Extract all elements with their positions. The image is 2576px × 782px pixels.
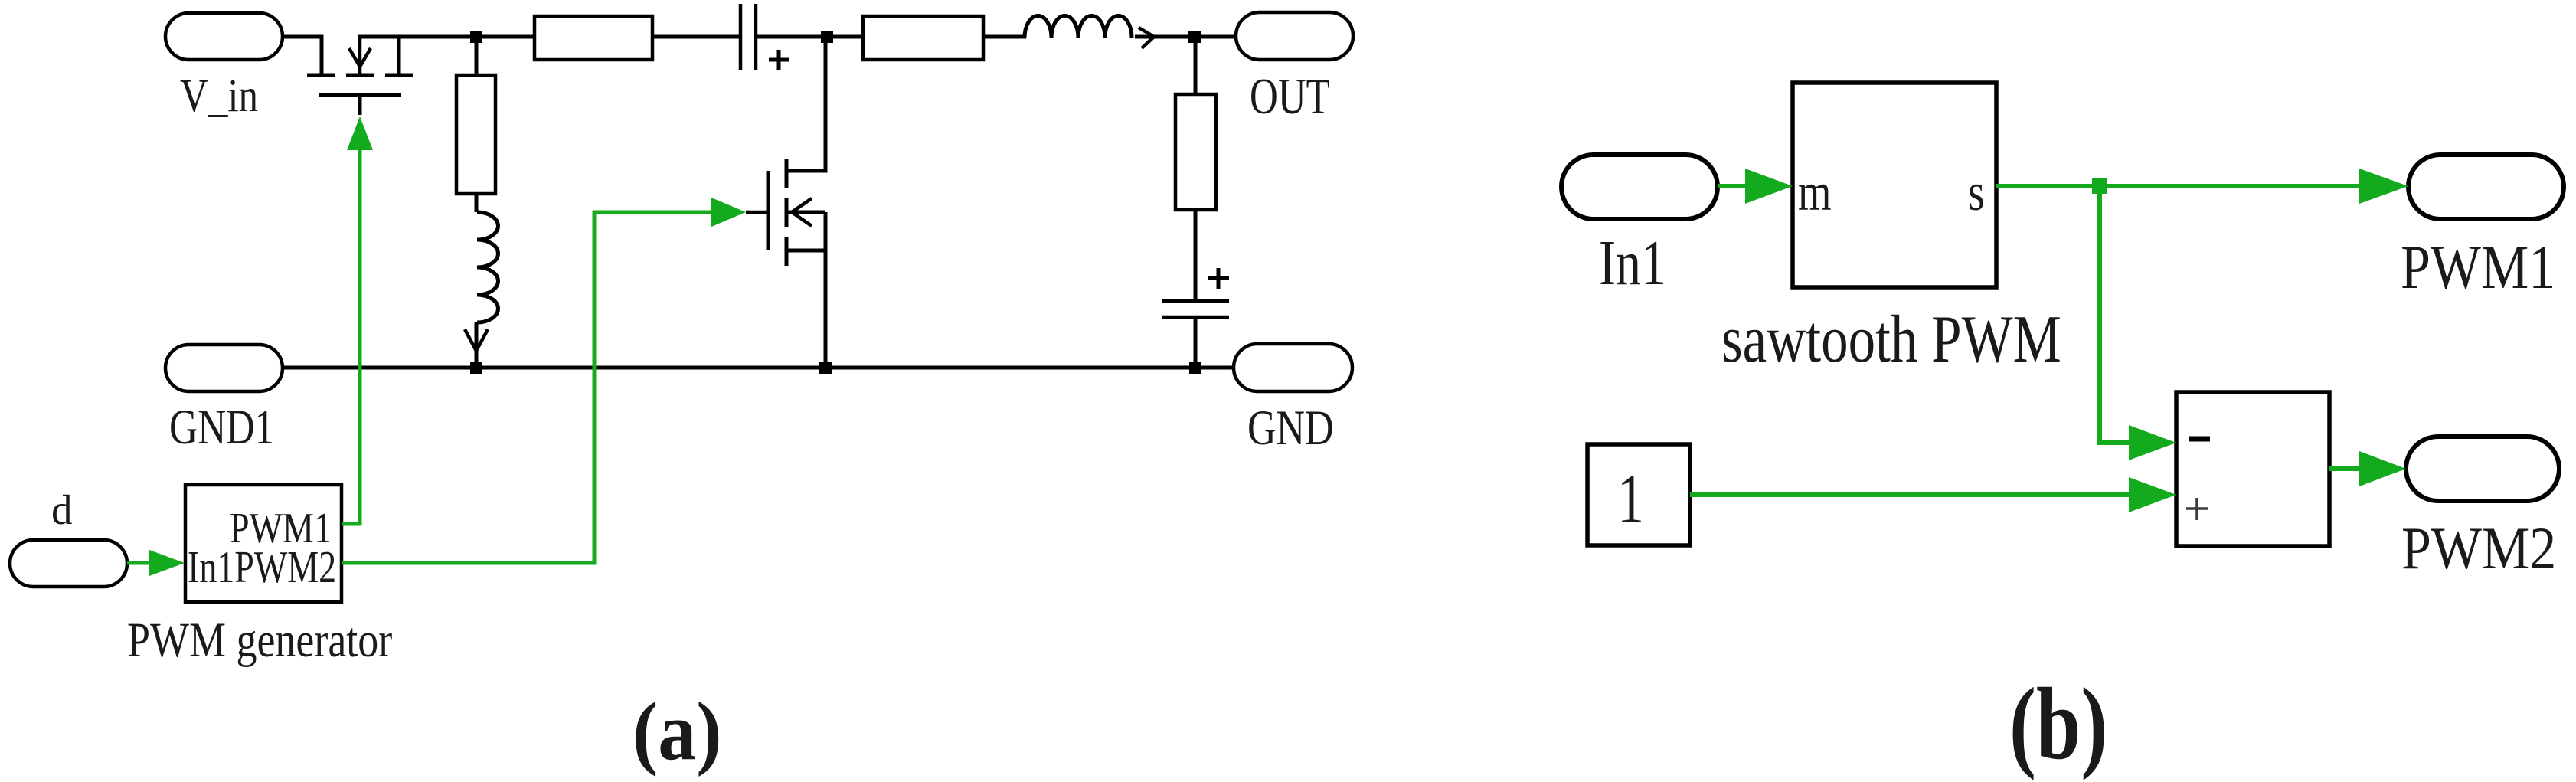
arrowhead at m input (green) xyxy=(1745,169,1793,204)
node E junction dot xyxy=(1189,362,1201,374)
constant block 1 xyxy=(1587,444,1690,545)
wire R2 to capacitor C1 xyxy=(652,35,739,39)
port V_in xyxy=(165,13,283,60)
port GND xyxy=(1234,344,1352,391)
wire top rail M1 to node A xyxy=(358,35,534,39)
wire In1 to sawtooth PWM m (green) xyxy=(1718,184,1746,188)
transistor M2 drain lead up to node C xyxy=(786,37,825,171)
svg-text:sawtooth PWM: sawtooth PWM xyxy=(1721,303,2061,377)
resistor R1 (vertical) xyxy=(456,75,495,194)
svg-text:d: d xyxy=(51,486,73,533)
transistor M1 source contact bar xyxy=(307,74,335,77)
port GND1 xyxy=(165,345,283,391)
arrowhead at sum plus input (green) xyxy=(2129,477,2176,512)
sum minus sign xyxy=(2189,437,2210,442)
capacitor C1 (series) plates xyxy=(739,4,743,70)
transistor M1 body terminal with down arrow xyxy=(349,35,371,74)
resistor R4 (vertical, load) xyxy=(1175,94,1216,210)
wire bottom rail GND1 to GND xyxy=(283,366,1234,370)
inductor L1 (vertical coil) xyxy=(477,212,499,322)
port PWM2 xyxy=(2406,437,2559,501)
wire C2 to bottom rail xyxy=(1194,319,1198,368)
node G green junction dot xyxy=(2092,178,2107,194)
transistor M2 gate lead xyxy=(746,211,767,214)
transistor M1 gate stub xyxy=(358,97,362,115)
svg-text:PWM generator: PWM generator xyxy=(127,612,392,667)
wire PWM1 output to M1 gate (green) xyxy=(342,150,360,524)
node B junction dot on bottom rail xyxy=(470,362,482,374)
node D junction dot xyxy=(1188,31,1201,43)
svg-text:GND: GND xyxy=(1247,401,1334,456)
arrowhead at PWM1 (green) xyxy=(2359,169,2408,204)
arrowhead at PWM generator In1 (green) xyxy=(149,550,185,576)
port d xyxy=(10,540,127,587)
wire constant 1 to sum plus input (green) xyxy=(1690,492,2130,497)
capacitor C1 plus label xyxy=(769,50,789,70)
port PWM1 xyxy=(2408,155,2564,219)
capacitor C2 (output) plates xyxy=(1162,299,1229,303)
svg-text:OUT: OUT xyxy=(1250,68,1330,125)
wire R3 to inductor L2 xyxy=(983,35,1026,39)
transistor M2 channel segments xyxy=(785,159,789,266)
svg-text:PWM1: PWM1 xyxy=(2401,233,2555,302)
wire sawtooth s output to PWM1 (green) xyxy=(1996,184,2360,188)
port OUT xyxy=(1236,12,1353,60)
wire R4 to capacitor C2 xyxy=(1194,210,1198,301)
wire PWM2 output to M2 gate (green) xyxy=(342,212,711,563)
wire V_in to MOSFET M1 source xyxy=(283,37,322,74)
svg-text:(b): (b) xyxy=(2009,668,2107,781)
block sum U2 xyxy=(2176,392,2329,546)
wire L1 to bottom rail with arrow xyxy=(475,322,479,366)
wire L2 to node D with current arrow xyxy=(1135,35,1236,39)
transistor M1 drain contact bar xyxy=(385,74,413,77)
svg-text:GND1: GND1 xyxy=(169,400,274,455)
arrowhead at sum minus input (green) xyxy=(2129,425,2176,460)
svg-text:In1: In1 xyxy=(1599,228,1666,299)
svg-text:s: s xyxy=(1968,162,1985,221)
node F junction dot xyxy=(819,362,832,374)
resistor R3 (horizontal) xyxy=(863,16,983,60)
svg-text:(a): (a) xyxy=(633,685,722,777)
transistor M2 source lead down to bottom rail xyxy=(786,249,825,253)
transistor M1 body contact bar xyxy=(346,74,374,77)
arrowhead at M2 gate (green) xyxy=(711,198,746,227)
wire R1 to inductor L1 xyxy=(475,194,479,212)
wire node A down to resistor R1 xyxy=(475,37,479,75)
arrowhead at M1 gate (green) xyxy=(347,116,373,150)
node A junction dot xyxy=(470,31,482,43)
svg-text:m: m xyxy=(1798,162,1832,221)
sum plus sign xyxy=(2186,498,2208,520)
transistor M2 body lead with arrow xyxy=(786,211,825,214)
wire node D down to resistor R4 xyxy=(1194,37,1198,94)
node C junction dot xyxy=(821,31,833,43)
transistor M1 drain terminal xyxy=(397,37,401,74)
block PWM generator xyxy=(185,485,342,602)
wire node G down to sum minus input (green) xyxy=(2100,186,2130,443)
wire C1 to node C xyxy=(757,35,863,39)
svg-text:In1PWM2: In1PWM2 xyxy=(188,543,336,593)
svg-text:V_in: V_in xyxy=(180,70,258,122)
wire sum output to PWM2 (green) xyxy=(2329,466,2360,471)
capacitor C2 plus label xyxy=(1208,268,1229,289)
inductor L2 (horizontal coil) xyxy=(1025,16,1132,38)
svg-text:PWM2: PWM2 xyxy=(2401,515,2556,582)
transistor M2 gate bar xyxy=(767,171,770,250)
svg-text:1: 1 xyxy=(1617,460,1644,538)
block sawtooth PWM xyxy=(1793,83,1996,287)
port In1 xyxy=(1561,155,1718,219)
arrowhead at PWM2 (green) xyxy=(2359,451,2406,486)
wire d to PWM generator In1 (green) xyxy=(127,561,150,565)
resistor R2 (horizontal, top) xyxy=(534,16,652,60)
transistor M1 channel bar xyxy=(319,93,401,97)
